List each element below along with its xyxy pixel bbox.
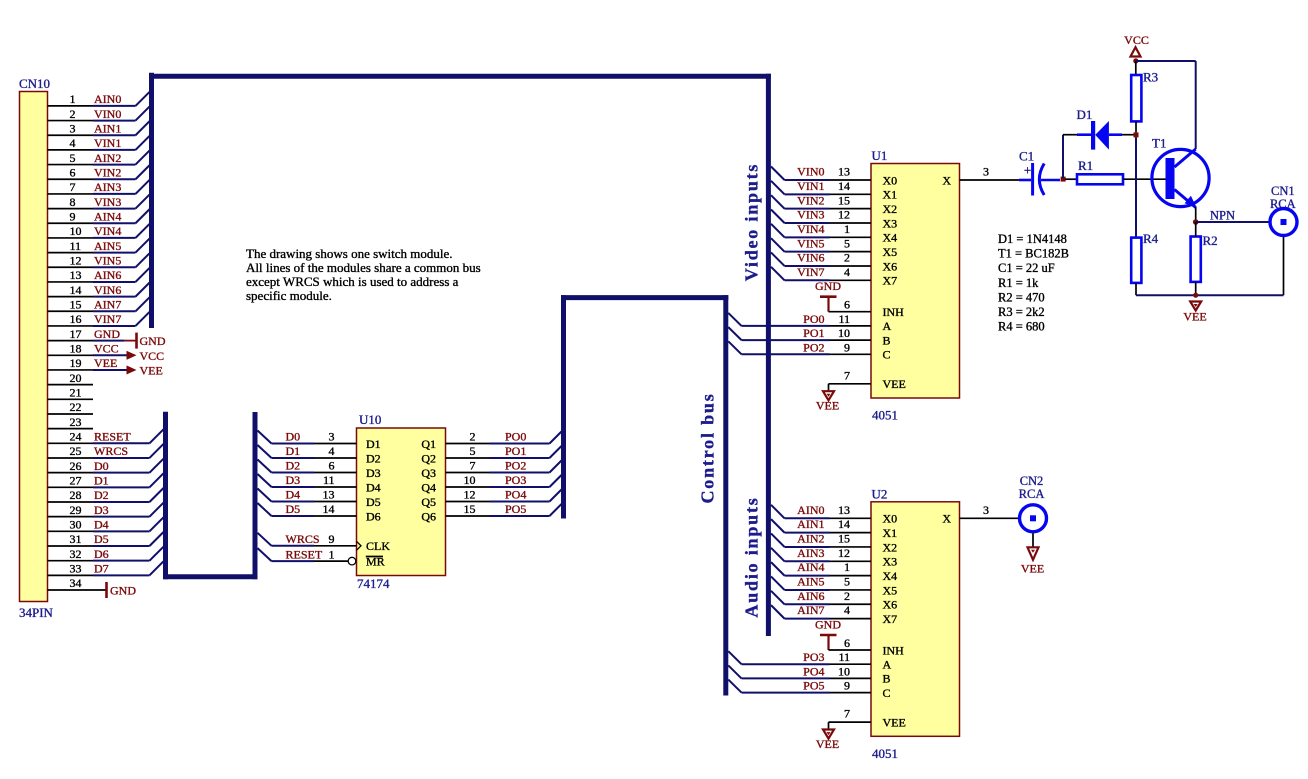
svg-text:D4: D4 (286, 488, 301, 502)
svg-text:17: 17 (70, 327, 82, 341)
svg-text:AIN3: AIN3 (94, 180, 121, 194)
svg-text:8: 8 (70, 195, 76, 209)
svg-text:AIN1: AIN1 (94, 121, 121, 135)
svg-text:AIN6: AIN6 (797, 589, 824, 603)
svg-text:R3 = 2k2: R3 = 2k2 (998, 305, 1045, 319)
svg-text:X3: X3 (883, 555, 898, 569)
svg-text:R1: R1 (1078, 158, 1093, 173)
wire VIN5 input (771, 236, 871, 251)
connector CN1 RCA (1270, 184, 1297, 236)
svg-text:Q2: Q2 (421, 451, 436, 465)
svg-text:PO5: PO5 (803, 679, 824, 693)
node R3/R4/D1 (1134, 132, 1139, 137)
wire U10 MR input (RESET net) (258, 547, 348, 561)
svg-text:4: 4 (844, 265, 850, 279)
svg-text:+: + (1024, 163, 1031, 178)
svg-text:X6: X6 (883, 259, 898, 273)
svg-text:D1: D1 (366, 437, 381, 451)
svg-text:25: 25 (70, 444, 82, 458)
VEE power symbol below rail (1183, 302, 1206, 324)
svg-text:21: 21 (70, 386, 82, 400)
svg-text:34: 34 (70, 576, 82, 590)
wire U10 Q5 output (PO4 net) (446, 488, 564, 502)
VCC power symbol (1124, 33, 1149, 57)
svg-text:D3: D3 (94, 503, 109, 517)
svg-text:9: 9 (844, 679, 850, 693)
svg-text:C1: C1 (1019, 149, 1034, 164)
svg-text:AIN0: AIN0 (797, 503, 824, 517)
svg-text:6: 6 (70, 165, 76, 179)
svg-text:INH: INH (883, 305, 905, 319)
wire U10 Q2 output (PO1 net) (446, 444, 564, 458)
wire AIN4 input (771, 560, 871, 575)
svg-text:VEE: VEE (1021, 561, 1044, 575)
wire CN1 shield down (1283, 237, 1285, 295)
svg-text:VIN2: VIN2 (94, 165, 121, 179)
svg-text:7: 7 (844, 707, 850, 721)
svg-text:6: 6 (329, 459, 335, 473)
svg-text:VEE: VEE (816, 737, 839, 751)
wire AIN7 input (771, 603, 871, 618)
node emitter/R2/CN1 (1193, 219, 1199, 225)
svg-text:13: 13 (70, 268, 82, 282)
svg-text:AIN5: AIN5 (94, 239, 121, 253)
svg-text:X6: X6 (883, 598, 898, 612)
svg-text:U2: U2 (872, 486, 888, 501)
register U10 74174 (357, 412, 446, 591)
svg-text:Q6: Q6 (421, 509, 436, 523)
node VCC (1133, 58, 1138, 63)
note text block (246, 246, 481, 303)
svg-text:29: 29 (70, 503, 82, 517)
svg-text:15: 15 (838, 532, 850, 546)
svg-text:24: 24 (70, 430, 82, 444)
svg-text:D2: D2 (366, 451, 381, 465)
wire U2 INH pin 6 (829, 636, 872, 650)
svg-text:VEE: VEE (883, 377, 906, 391)
svg-text:D4: D4 (366, 480, 381, 494)
svg-text:except WRCS which is used to a: except WRCS which is used to address a (246, 274, 459, 289)
svg-text:Control bus: Control bus (698, 393, 718, 504)
svg-text:T1: T1 (1152, 136, 1166, 151)
wire U1 X output pin 3 (960, 165, 1020, 181)
svg-text:X7: X7 (883, 274, 898, 288)
transistor T1 BC182B (1152, 136, 1209, 208)
svg-text:13: 13 (323, 488, 335, 502)
svg-text:VCC: VCC (1124, 33, 1149, 47)
svg-text:X: X (942, 173, 951, 187)
svg-text:INH: INH (883, 643, 905, 657)
wire VIN1 input (771, 179, 871, 194)
svg-text:12: 12 (464, 488, 476, 502)
svg-text:10: 10 (464, 473, 476, 487)
svg-text:X0: X0 (883, 173, 898, 187)
svg-text:AIN3: AIN3 (797, 546, 824, 560)
svg-text:VEE: VEE (816, 399, 839, 413)
svg-text:14: 14 (70, 283, 82, 297)
svg-text:Q4: Q4 (421, 480, 436, 494)
bus U10 output vertical (561, 295, 566, 518)
svg-text:VIN4: VIN4 (94, 224, 121, 238)
wire U10 Q6 output (PO5 net) (446, 502, 564, 516)
bus control vertical (723, 295, 728, 695)
svg-text:D1: D1 (286, 444, 301, 458)
wire corner to D1 cathode (1063, 134, 1077, 136)
svg-text:5: 5 (844, 236, 850, 250)
svg-text:AIN5: AIN5 (797, 575, 824, 589)
svg-text:PO2: PO2 (505, 459, 526, 473)
svg-text:9: 9 (70, 209, 76, 223)
svg-text:D2: D2 (94, 488, 109, 502)
svg-text:3: 3 (983, 165, 989, 179)
svg-text:VEE: VEE (140, 364, 163, 378)
svg-text:VIN5: VIN5 (797, 236, 824, 250)
svg-text:VIN1: VIN1 (797, 179, 824, 193)
svg-text:6: 6 (844, 298, 850, 312)
wire VCC node to R3 (1135, 61, 1137, 75)
svg-text:R1 = 1k: R1 = 1k (998, 276, 1039, 290)
svg-text:The drawing shows one switch m: The drawing shows one switch module. (246, 246, 453, 261)
svg-text:VEE: VEE (94, 356, 117, 370)
svg-text:D1: D1 (1077, 107, 1093, 122)
svg-text:4: 4 (329, 444, 335, 458)
svg-text:Q3: Q3 (421, 466, 436, 480)
svg-text:AIN6: AIN6 (94, 268, 121, 282)
wire node to CN1 (1196, 221, 1269, 223)
svg-text:T1 = BC182B: T1 = BC182B (998, 247, 1069, 261)
svg-text:PO4: PO4 (505, 488, 526, 502)
svg-text:2: 2 (844, 251, 850, 265)
wire D1 branch vertical (1062, 135, 1064, 178)
svg-text:10: 10 (838, 664, 850, 678)
svg-text:6: 6 (844, 636, 850, 650)
wire R4 to VEE rail (1135, 283, 1137, 295)
svg-text:B: B (883, 333, 891, 347)
resistor R4 (1131, 231, 1158, 283)
wire U10 D3 input (D2 net) (258, 459, 357, 473)
svg-text:2: 2 (470, 430, 476, 444)
svg-text:VIN0: VIN0 (94, 107, 121, 121)
diode D1 1N4148 (1077, 107, 1123, 150)
wire VIN2 input (771, 193, 871, 208)
svg-text:15: 15 (838, 193, 850, 207)
wire PO2 to U1 C (728, 340, 871, 354)
svg-text:X5: X5 (883, 245, 898, 259)
svg-text:D1 = 1N4148: D1 = 1N4148 (998, 232, 1067, 246)
svg-text:5: 5 (844, 575, 850, 589)
clock wedge U10 CLK (357, 541, 362, 550)
svg-text:7: 7 (470, 459, 476, 473)
svg-text:AIN7: AIN7 (94, 297, 121, 311)
svg-text:26: 26 (70, 459, 82, 473)
svg-text:33: 33 (70, 562, 82, 576)
svg-text:PO3: PO3 (505, 473, 526, 487)
svg-text:1: 1 (70, 92, 76, 106)
mux U1 4051 (871, 148, 960, 423)
svg-text:X2: X2 (883, 540, 898, 554)
svg-text:All lines of the modules share: All lines of the modules share a common … (246, 260, 481, 275)
svg-text:GND: GND (110, 584, 136, 598)
node C1/R1/D1 (1061, 177, 1066, 182)
svg-text:D4: D4 (94, 518, 109, 532)
wire U10 D5 input (D4 net) (258, 488, 357, 502)
svg-text:U1: U1 (872, 148, 888, 163)
svg-text:Audio inputs: Audio inputs (742, 496, 762, 617)
svg-text:10: 10 (838, 326, 850, 340)
svg-text:VIN7: VIN7 (797, 265, 824, 279)
svg-text:11: 11 (70, 239, 82, 253)
svg-text:D3: D3 (366, 466, 381, 480)
wire VIN4 input (771, 222, 871, 237)
wire VEE rail horizontal (1136, 294, 1284, 296)
wire node to R2 (1195, 222, 1197, 237)
svg-text:WRCS: WRCS (286, 532, 320, 546)
wire R3 to node (1135, 121, 1137, 132)
svg-text:VIN5: VIN5 (94, 253, 121, 267)
wire VIN7 input (771, 265, 871, 280)
ground symbol at U2 INH (815, 618, 841, 651)
svg-text:D2: D2 (286, 459, 301, 473)
resistor R1 (1077, 158, 1123, 184)
svg-text:2: 2 (844, 589, 850, 603)
svg-text:15: 15 (70, 297, 82, 311)
svg-text:12: 12 (838, 208, 850, 222)
wire U1 VEE pin 7 (829, 368, 872, 390)
svg-text:5: 5 (470, 444, 476, 458)
svg-text:32: 32 (70, 547, 82, 561)
connector CN10 (19, 76, 54, 620)
svg-text:3: 3 (329, 430, 335, 444)
svg-text:13: 13 (838, 165, 850, 179)
svg-text:14: 14 (838, 179, 850, 193)
wire PO0 to U1 A (728, 312, 871, 326)
svg-text:4: 4 (844, 603, 850, 617)
VEE power symbol at CN2 (1021, 547, 1044, 575)
svg-text:PO5: PO5 (505, 502, 526, 516)
svg-text:VIN6: VIN6 (797, 251, 824, 265)
svg-text:D5: D5 (94, 532, 109, 546)
svg-text:AIN1: AIN1 (797, 517, 824, 531)
wire U2 VEE pin 7 (829, 707, 872, 729)
svg-text:GND: GND (140, 334, 166, 348)
svg-text:WRCS: WRCS (94, 444, 128, 458)
wire U10 D1 input (D0 net) (258, 430, 357, 444)
svg-text:12: 12 (70, 253, 82, 267)
svg-text:AIN7: AIN7 (797, 603, 824, 617)
svg-text:AIN2: AIN2 (94, 151, 121, 165)
svg-text:VCC: VCC (140, 349, 165, 363)
svg-text:D6: D6 (366, 509, 381, 523)
svg-text:RESET: RESET (286, 547, 323, 561)
svg-text:Q1: Q1 (421, 437, 436, 451)
wire U10 Q3 output (PO2 net) (446, 459, 564, 473)
svg-text:X: X (942, 512, 951, 526)
svg-text:PO4: PO4 (803, 664, 824, 678)
svg-text:4051: 4051 (872, 746, 898, 761)
svg-text:D5: D5 (366, 495, 381, 509)
svg-text:VIN1: VIN1 (94, 136, 121, 150)
pin label MR with overline (366, 554, 385, 568)
svg-text:4051: 4051 (872, 408, 898, 423)
wire R2 to VEE rail (1195, 282, 1197, 295)
svg-text:16: 16 (70, 312, 82, 326)
svg-text:PO2: PO2 (803, 340, 824, 354)
svg-text:CN2: CN2 (1020, 474, 1044, 488)
svg-text:B: B (883, 672, 891, 686)
svg-text:VEE: VEE (1183, 310, 1206, 324)
svg-text:28: 28 (70, 488, 82, 502)
component values list (998, 232, 1069, 334)
svg-text:D0: D0 (94, 459, 109, 473)
svg-text:10: 10 (70, 224, 82, 238)
svg-text:AIN2: AIN2 (797, 532, 824, 546)
svg-text:AIN0: AIN0 (94, 92, 121, 106)
svg-text:30: 30 (70, 518, 82, 532)
svg-text:11: 11 (838, 312, 850, 326)
svg-text:VCC: VCC (94, 341, 119, 355)
svg-text:A: A (883, 319, 892, 333)
capacitor C1 (1019, 149, 1060, 196)
svg-text:C1 = 22 uF: C1 = 22 uF (998, 261, 1055, 275)
bus U10 input vertical (253, 412, 258, 579)
svg-text:VIN3: VIN3 (94, 195, 121, 209)
svg-text:X7: X7 (883, 612, 898, 626)
svg-text:34PIN: 34PIN (19, 605, 54, 620)
svg-text:D5: D5 (286, 502, 301, 516)
wire U10 Q4 output (PO3 net) (446, 473, 564, 487)
wire VIN3 input (771, 208, 871, 223)
svg-text:11: 11 (838, 650, 850, 664)
svg-text:CN10: CN10 (19, 76, 50, 91)
svg-text:AIN4: AIN4 (797, 560, 824, 574)
resistor R2 (1191, 233, 1218, 282)
svg-text:20: 20 (70, 371, 82, 385)
wire R1 to T1 base (1123, 178, 1166, 180)
svg-text:R3: R3 (1143, 70, 1158, 85)
svg-text:D1: D1 (94, 474, 109, 488)
bus CN10 inputs (vertical) (149, 73, 154, 328)
svg-text:R2: R2 (1203, 233, 1218, 248)
svg-text:X3: X3 (883, 216, 898, 230)
svg-text:VIN7: VIN7 (94, 312, 121, 326)
wire AIN1 input (771, 517, 871, 532)
wire U2 X output pin 3 (960, 503, 1020, 519)
bus horizontal to control bus (561, 295, 728, 300)
wire CN2 shield down (1032, 533, 1034, 547)
VEE power symbol at U2 (816, 730, 839, 751)
svg-text:C: C (883, 686, 891, 700)
svg-text:X4: X4 (883, 569, 898, 583)
svg-text:1: 1 (329, 547, 335, 561)
svg-text:22: 22 (70, 400, 82, 414)
wire U10 CLK input (WRCS net) (258, 532, 357, 546)
svg-text:GND: GND (815, 279, 841, 293)
svg-text:D6: D6 (94, 547, 109, 561)
wire T1 emitter to node (1195, 207, 1197, 222)
svg-text:D3: D3 (286, 473, 301, 487)
svg-text:X4: X4 (883, 231, 898, 245)
svg-text:14: 14 (323, 502, 335, 516)
svg-text:1: 1 (844, 222, 850, 236)
svg-text:5: 5 (70, 151, 76, 165)
svg-text:GND: GND (94, 327, 120, 341)
svg-text:R4: R4 (1143, 231, 1159, 246)
svg-text:CLK: CLK (366, 539, 390, 553)
node VEE rail (1193, 293, 1198, 298)
wire VIN0 input (771, 165, 871, 180)
svg-text:X5: X5 (883, 583, 898, 597)
bus inputs vertical (video+audio) (766, 74, 771, 636)
svg-text:18: 18 (70, 341, 82, 355)
svg-text:D7: D7 (94, 562, 109, 576)
wire U10 D4 input (D3 net) (258, 473, 357, 487)
svg-text:PO1: PO1 (505, 444, 526, 458)
inversion bubble U10 MR (348, 557, 356, 565)
svg-text:RCA: RCA (1019, 487, 1045, 501)
svg-text:9: 9 (844, 340, 850, 354)
svg-text:3: 3 (70, 121, 76, 135)
wire AIN3 input (771, 546, 871, 561)
wire U10 D2 input (D1 net) (258, 444, 357, 458)
svg-text:X2: X2 (883, 202, 898, 216)
svg-text:PO3: PO3 (803, 650, 824, 664)
svg-text:A: A (883, 658, 892, 672)
wire U10 Q1 output (PO0 net) (446, 430, 564, 444)
svg-text:AIN4: AIN4 (94, 209, 121, 223)
wire VCC node to collector (top) (1136, 61, 1196, 149)
svg-text:19: 19 (70, 356, 82, 370)
svg-text:3: 3 (983, 503, 989, 517)
svg-text:specific module.: specific module. (246, 288, 332, 303)
svg-text:Video inputs: Video inputs (742, 163, 762, 281)
svg-text:PO0: PO0 (803, 312, 824, 326)
VEE power symbol at U1 (816, 391, 839, 412)
wire VIN6 input (771, 251, 871, 266)
svg-text:R2 = 470: R2 = 470 (998, 290, 1045, 304)
svg-text:R4 = 680: R4 = 680 (998, 320, 1045, 334)
svg-text:VIN6: VIN6 (94, 283, 121, 297)
svg-text:D0: D0 (286, 430, 301, 444)
wire PO1 to U1 B (728, 326, 871, 340)
svg-text:15: 15 (464, 502, 476, 516)
svg-text:GND: GND (815, 618, 841, 632)
wire U10 D6 input (D5 net) (258, 502, 357, 516)
connector CN2 RCA (1019, 474, 1047, 532)
svg-text:9: 9 (329, 532, 335, 546)
svg-text:1: 1 (844, 560, 850, 574)
wire AIN0 input (771, 503, 871, 518)
svg-text:PO0: PO0 (505, 430, 526, 444)
bus CN10 data left vertical (163, 412, 168, 580)
svg-text:VIN3: VIN3 (797, 208, 824, 222)
svg-text:VEE: VEE (883, 715, 906, 729)
svg-text:12: 12 (838, 546, 850, 560)
svg-text:14: 14 (838, 517, 850, 531)
svg-text:74174: 74174 (357, 576, 390, 591)
wire U1 INH pin 6 (829, 298, 872, 312)
svg-text:Q5: Q5 (421, 495, 436, 509)
bus bottom horizontal (163, 574, 258, 579)
svg-text:X1: X1 (883, 188, 898, 202)
wire node to R1 (1065, 178, 1077, 180)
wire AIN2 input (771, 532, 871, 547)
svg-text:X0: X0 (883, 512, 898, 526)
svg-text:CN1: CN1 (1271, 184, 1295, 198)
svg-text:7: 7 (844, 368, 850, 382)
svg-text:RESET: RESET (94, 430, 131, 444)
ground symbol at U1 INH (815, 279, 841, 312)
wire AIN5 input (771, 575, 871, 590)
